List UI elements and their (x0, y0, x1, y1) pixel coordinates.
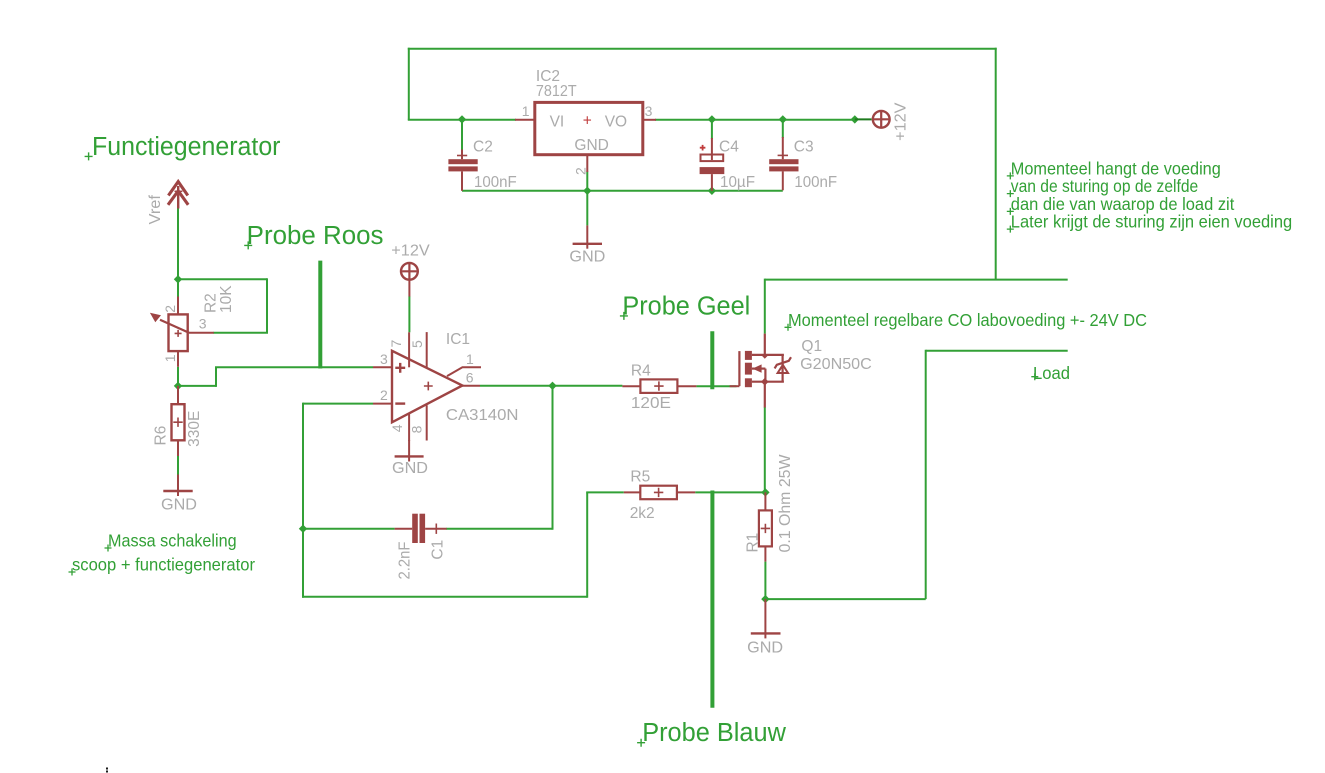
node label Probe Blauw (637, 719, 786, 747)
svg-text:2: 2 (573, 167, 589, 175)
wire VI input row (408, 119, 516, 121)
resistor R6 (172, 386, 185, 456)
svg-text:Functiegenerator: Functiegenerator (92, 133, 281, 161)
wire pot loop top (177, 278, 267, 280)
junction node +12V supply (851, 115, 859, 123)
wire Vref drop (177, 208, 179, 279)
svg-text:3: 3 (199, 315, 207, 331)
Vref supply arrow (168, 182, 188, 209)
wire Q1 collector drop (764, 279, 766, 334)
IC1 pin 6 output lead (462, 385, 480, 387)
svg-text:2.2nF: 2.2nF (397, 542, 414, 580)
svg-text:Later krijgt de sturing zijn e: Later krijgt de sturing zijn eien voedin… (1011, 212, 1292, 232)
svg-text:3: 3 (380, 351, 388, 367)
wire pot top stub (177, 279, 179, 297)
svg-text:+12V: +12V (391, 243, 430, 260)
svg-text:GND: GND (747, 640, 783, 657)
junction node op-amp output (548, 382, 556, 390)
IC1 pin 7 lead (408, 332, 410, 367)
wire feedback bottom row (302, 596, 587, 598)
svg-text:10K: 10K (218, 285, 235, 313)
gnd symbol under R1 (751, 599, 781, 638)
svg-text:+: + (583, 112, 592, 129)
svg-text:2: 2 (162, 305, 178, 313)
wire C4 drop (711, 120, 713, 139)
wire R1 bottom (764, 562, 766, 600)
svg-text:Massa schakeling: Massa schakeling (108, 531, 237, 551)
gnd symbol under IC2 (573, 225, 602, 248)
svg-text:VO: VO (605, 113, 627, 130)
svg-text:0.1 Ohm 25W: 0.1 Ohm 25W (777, 454, 794, 552)
svg-text:10µF: 10µF (720, 174, 755, 191)
svg-text:R5: R5 (630, 469, 650, 486)
note massa 1 (105, 531, 237, 552)
note line 1 (1007, 158, 1221, 179)
note line 2 (1007, 176, 1198, 197)
IC1 pin 1 lead (447, 367, 481, 376)
wire to plus input (215, 366, 373, 368)
wire feedback right riser (586, 492, 588, 597)
capacitor C2 (448, 150, 477, 172)
svg-text:Probe Blauw: Probe Blauw (642, 719, 786, 747)
IC1 pin 4 lead (408, 414, 410, 441)
junction node pot top (174, 275, 182, 283)
svg-text:GND: GND (161, 497, 197, 514)
wire R6 bottom (177, 455, 179, 475)
svg-text:GND: GND (574, 137, 608, 154)
wire C3 drop (782, 120, 784, 138)
svg-text:2k2: 2k2 (630, 505, 655, 522)
svg-text:3: 3 (645, 103, 653, 119)
wire +24V row to load (765, 279, 1068, 281)
wire pot loop right (266, 278, 268, 333)
supply +12V symbol op-amp (401, 263, 418, 297)
note line 3 (1007, 194, 1235, 215)
IC1 pin 8 lead (426, 405, 428, 440)
svg-text:7: 7 (388, 340, 404, 348)
svg-text:6: 6 (466, 370, 474, 386)
svg-text:Load: Load (1033, 363, 1070, 383)
svg-text:Q1: Q1 (801, 338, 822, 355)
svg-text:1: 1 (162, 354, 178, 362)
wire load right vertical (925, 350, 927, 599)
svg-text:CA3140N: CA3140N (446, 407, 519, 424)
IC2 pin 2 lead (586, 155, 588, 173)
wire R5 right to node (695, 491, 765, 493)
svg-text:8: 8 (409, 425, 425, 433)
wire corner up (215, 367, 217, 387)
gnd symbol under R6 (163, 475, 192, 497)
node label Probe Roos (244, 222, 383, 250)
svg-text:120E: 120E (631, 395, 671, 412)
wire C1 riser to output (552, 386, 554, 530)
wire top rail (408, 48, 997, 50)
svg-text:C4: C4 (719, 139, 739, 156)
wire node to corner (177, 385, 216, 387)
wire to R5 left (586, 491, 624, 493)
wire feedback left vertical (302, 403, 304, 598)
probe Blauw thick line (710, 491, 714, 708)
wire IC2 pin2 drop (586, 172, 588, 191)
junction node feedback C1 (299, 525, 307, 533)
gnd symbol under IC1 (395, 440, 424, 462)
svg-text:VI: VI (550, 113, 565, 130)
note line 4 (1007, 212, 1292, 233)
wire bottom right row (765, 598, 925, 600)
wire pot loop bottom (213, 332, 268, 334)
resistor R1 (759, 492, 772, 561)
svg-text:G20N50C: G20N50C (800, 356, 872, 373)
wire VO output row (655, 119, 855, 121)
node label Probe Geel (620, 292, 750, 320)
svg-text:5: 5 (409, 340, 425, 348)
wire op-amp output row (480, 385, 622, 387)
wire minus input row (303, 403, 373, 405)
svg-text:Probe Roos: Probe Roos (247, 222, 384, 250)
op-amp IC1 triangle (392, 351, 462, 423)
IC2 pin 1 lead (515, 119, 535, 121)
svg-text:R1: R1 (745, 533, 762, 553)
svg-text:IC1: IC1 (446, 331, 470, 348)
svg-text:+12V: +12V (893, 102, 910, 141)
svg-text:7812T: 7812T (536, 83, 577, 100)
capacitor C1 (395, 514, 447, 543)
junction node R1 gnd (761, 595, 769, 603)
svg-text:Probe Geel: Probe Geel (622, 292, 750, 320)
svg-text:330E: 330E (186, 411, 203, 447)
wire C1 right row (446, 528, 552, 530)
corner mark (106, 768, 108, 773)
wire gnd rail under IC2 (462, 190, 783, 192)
svg-text:GND: GND (569, 248, 605, 265)
probe Roos thick line (318, 261, 322, 369)
wire load bottom row (926, 350, 1068, 352)
svg-text:C3: C3 (794, 139, 814, 156)
wire R4 to gate (696, 385, 736, 387)
svg-text:100nF: 100nF (794, 174, 837, 191)
probe Geel thick line (710, 331, 714, 389)
svg-text:R6: R6 (153, 426, 170, 446)
svg-text:R4: R4 (631, 363, 651, 380)
svg-text:2: 2 (380, 387, 388, 403)
junction node VO/C4 (708, 115, 716, 123)
potentiometer R2 (150, 297, 214, 367)
IC1 pin 5 lead (426, 332, 428, 367)
svg-text:100nF: 100nF (474, 174, 517, 191)
capacitor C3 (769, 137, 798, 190)
wire pot bottom to node (177, 367, 179, 386)
svg-text:4: 4 (389, 424, 405, 432)
wire top-right vertical (995, 48, 997, 280)
note massa 2 (69, 555, 256, 576)
transistor Q1 IGBT (730, 334, 791, 408)
svg-text:Vref: Vref (147, 194, 164, 224)
note labo supply (785, 310, 1148, 331)
svg-text:1: 1 (522, 103, 530, 119)
svg-text:scoop + functiegenerator: scoop + functiegenerator (72, 555, 255, 575)
junction node gnd rail C4 (708, 187, 716, 195)
junction node VI/C2 (458, 115, 466, 123)
svg-text:GND: GND (392, 460, 428, 477)
wire top-left vertical (408, 48, 410, 120)
wire C1 left row (303, 528, 395, 530)
svg-text:C1: C1 (430, 540, 447, 560)
IC1 pin 2 lead (373, 403, 392, 405)
svg-text:Momenteel regelbare CO labovoe: Momenteel regelbare CO labovoeding +- 24… (788, 310, 1147, 330)
wire Q1 emitter to node (764, 407, 766, 492)
node label Functiegenerator (85, 133, 281, 161)
junction node R5/R1/Q1 (761, 488, 769, 496)
IC1 pin 3 lead (373, 366, 392, 368)
junction node gnd rail mid (583, 187, 591, 195)
wire op-amp supply drop (408, 296, 410, 332)
IC2 pin 3 lead (643, 119, 656, 121)
junction node VO/C3 (779, 115, 787, 123)
svg-text:1: 1 (466, 351, 474, 367)
wire C2 bottom stub (461, 172, 463, 191)
node label Load (1031, 363, 1070, 383)
svg-text:C2: C2 (473, 139, 493, 156)
wire mid gnd drop (586, 191, 588, 226)
IC2 7812T regulator body (535, 102, 643, 154)
junction node pot bottom R6 (174, 382, 182, 390)
resistor R5 (624, 486, 695, 500)
wire C2 drop (461, 120, 463, 151)
supply +12V symbol right (855, 111, 890, 128)
resistor R4 (622, 379, 696, 393)
capacitor C4 polarized (700, 138, 725, 191)
